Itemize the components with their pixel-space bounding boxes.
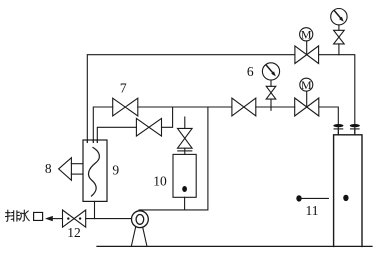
svg-text:10: 10 [153,173,167,188]
svg-text:7: 7 [120,80,127,95]
svg-text:12: 12 [67,225,81,240]
svg-text:M: M [301,78,312,92]
svg-text:9: 9 [112,163,119,178]
svg-text:8: 8 [45,161,52,176]
svg-text:11: 11 [306,203,319,218]
svg-text:6: 6 [247,64,254,79]
svg-text:M: M [301,27,312,41]
